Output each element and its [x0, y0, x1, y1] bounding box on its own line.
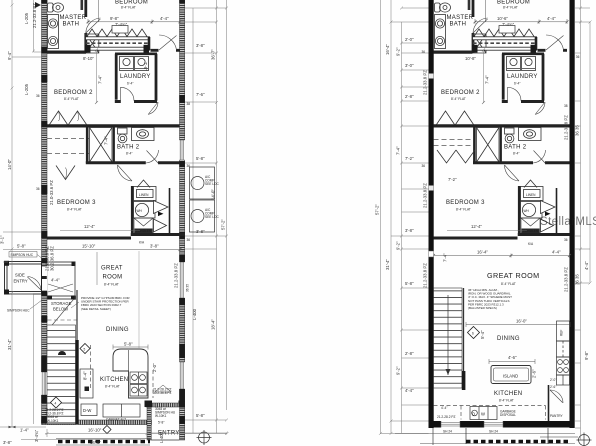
svg-text:16'-4": 16'-4": [385, 44, 390, 55]
svg-text:36: 36: [187, 238, 191, 242]
bedroom2 closet dashed shelves: [47, 139, 89, 154]
kitchen dim 5'-8": [113, 345, 148, 350]
shear diamond 3: [103, 426, 111, 434]
island R: [491, 366, 531, 384]
svg-text:BEDROOM 3: BEDROOM 3: [57, 200, 96, 206]
rotated dim texts left side: [0, 3, 54, 350]
svg-text:16'-0": 16'-0": [516, 319, 527, 324]
porch line R: [395, 434, 575, 444]
svg-text:SEE LOC: SEE LOC: [205, 215, 220, 219]
master bath right wall R: [472, 0, 475, 53]
water heater R: [521, 202, 543, 219]
svg-text:SIMPSON HUC: SIMPSON HUC: [7, 309, 30, 313]
svg-text:12'-4": 12'-4": [471, 224, 482, 229]
svg-text:8'-4" FLAT: 8'-4" FLAT: [456, 208, 471, 212]
linen niche door peak: [137, 180, 150, 188]
svg-text:5'-8": 5'-8": [196, 413, 205, 418]
svg-text:StellarMLS: StellarMLS: [540, 216, 596, 228]
svg-text:12'-4": 12'-4": [84, 224, 95, 229]
porch steps lines: [56, 439, 150, 446]
bedroom2 closet dashed shelves R: [434, 140, 476, 146]
svg-text:8'-4" FLAT: 8'-4" FLAT: [104, 283, 119, 287]
bottom cabinets: [103, 404, 140, 417]
svg-text:HANDLER: HANDLER: [523, 229, 539, 233]
svg-text:8'-4" FLAT: 8'-4" FLAT: [451, 97, 466, 101]
bedroom2 closet bifold doors: [50, 111, 87, 125]
svg-text:3'-8": 3'-8": [405, 228, 414, 233]
svg-text:W-10K1: W-10K1: [47, 419, 59, 423]
survey circle: [197, 430, 212, 445]
svg-text:SIDE: SIDE: [15, 273, 25, 278]
svg-text:3'-0": 3'-0": [405, 63, 414, 68]
laundry bottom wall R: [502, 100, 544, 103]
stair down arrow R: [447, 295, 449, 375]
svg-text:21.2-33.8 PZ: 21.2-33.8 PZ: [564, 267, 569, 292]
svg-text:4'-4": 4'-4": [51, 278, 60, 283]
svg-text:L-205: L-205: [24, 83, 29, 95]
dim ticks right plan right: [575, 8, 590, 428]
shear diamond R stairs: [468, 327, 480, 339]
dim line 15'-10": [46, 247, 182, 252]
svg-text:36'-7": 36'-7": [211, 49, 216, 60]
svg-text:7'-6": 7'-6": [196, 92, 205, 97]
washer dryer: [120, 57, 149, 71]
master bath bottom wall R: [434, 50, 473, 53]
svg-text:31'-4": 31'-4": [385, 259, 390, 270]
svg-text:2'-6": 2'-6": [532, 369, 537, 378]
window gap left wall kitchen: [41, 372, 47, 395]
svg-text:D: D: [472, 412, 475, 417]
dim vline left second: [33, 0, 35, 424]
deck bulkhead notch R: [499, 26, 515, 34]
wall right exterior (solid): [570, 0, 575, 428]
bath2 closet X R: [477, 128, 500, 163]
side entry top wall inside: [47, 262, 75, 265]
linen cabinet R: [521, 187, 544, 201]
cabinet R: [557, 341, 570, 357]
bath2 vanity R: [519, 128, 542, 141]
pantry door arc R: [550, 390, 563, 403]
svg-text:57'-2": 57'-2": [375, 204, 380, 215]
svg-text:30.2-36.8 PZ: 30.2-36.8 PZ: [50, 246, 55, 271]
wh closet doors: [154, 201, 169, 233]
wall right of wh R: [518, 186, 521, 236]
svg-text:16'-10": 16'-10": [88, 428, 102, 433]
door gap left wall side entry: [41, 266, 47, 291]
dim line bedroom top R: [474, 0, 569, 24]
svg-text:BATH 2: BATH 2: [117, 145, 140, 151]
svg-text:5'-8": 5'-8": [405, 281, 414, 286]
dim vline far left: [11, 0, 13, 427]
svg-text:31'-4": 31'-4": [7, 339, 12, 350]
kitchen sink boxes: [130, 372, 147, 396]
bedroom3 door arc R: [504, 165, 519, 181]
svg-text:HANDLER: HANDLER: [136, 229, 152, 233]
svg-text:8'-4" FLAT: 8'-4" FLAT: [67, 208, 82, 212]
svg-text:10'-6": 10'-6": [497, 16, 508, 21]
wall below wh closet: [131, 233, 185, 236]
svg-text:21.2-33.8 PZ: 21.2-33.8 PZ: [564, 115, 569, 140]
porch rail dashes R: [466, 440, 570, 443]
svg-text:5'-4": 5'-4": [480, 330, 485, 339]
svg-text:36: 36: [422, 164, 426, 168]
wall below wh closet R: [518, 233, 570, 236]
svg-text:STORAGE: STORAGE: [51, 301, 72, 306]
svg-text:21.2-33.8 PZ: 21.2-33.8 PZ: [423, 70, 428, 95]
bath2 closet with X: [90, 128, 113, 163]
svg-text:36 35: 36 35: [186, 284, 190, 292]
bath2 toilet: [118, 128, 128, 143]
porch left edge R: [432, 428, 434, 445]
hall wall stub + deck door: [151, 49, 181, 52]
bath2 door arc: [146, 150, 159, 164]
svg-text:36: 36: [576, 55, 580, 59]
svg-text:7'-6": 7'-6": [143, 62, 148, 71]
master bath right wall: [84, 0, 87, 53]
svg-text:2'-6": 2'-6": [550, 385, 556, 389]
svg-text:8'-4" FLAT: 8'-4" FLAT: [64, 97, 79, 101]
closet corridor wall R: [556, 188, 558, 236]
closet corridor wall: [169, 188, 171, 236]
svg-text:4: 4: [55, 401, 57, 405]
svg-text:10'-8": 10'-8": [465, 56, 476, 61]
bottom-left small dims: [21, 429, 229, 440]
entry porch floor line: [151, 439, 179, 441]
simpson huc label top: [9, 252, 37, 258]
wh closet doors R: [541, 201, 556, 233]
bottom counters dashed R: [434, 406, 546, 420]
deck rail zigzag R: [474, 29, 534, 37]
bath2 vanity: [132, 128, 155, 141]
svg-text:9'-8": 9'-8": [584, 351, 589, 360]
entry recess top wall (hatched): [146, 403, 185, 407]
hall door arc R: [535, 102, 545, 115]
hall door arc: [148, 102, 158, 115]
svg-text:5'-8": 5'-8": [124, 342, 133, 347]
water heater: [134, 202, 156, 219]
side entry bumpout: [5, 262, 42, 295]
deck right wall R: [535, 37, 538, 50]
entry porch R: [466, 428, 548, 444]
svg-text:7'-4": 7'-4": [104, 136, 109, 145]
svg-text:14'-8": 14'-8": [90, 440, 101, 445]
deck top wall R: [473, 37, 537, 40]
svg-text:8'-4" FLAT: 8'-4" FLAT: [503, 6, 518, 10]
svg-text:38: 38: [564, 104, 568, 108]
window gap right wall dining: [179, 362, 185, 389]
rotated dim texts middle gap: [375, 44, 401, 375]
svg-text:8'-4": 8'-4": [513, 152, 519, 156]
master bath toilet R: [435, 3, 451, 12]
svg-text:BEDROOM 2: BEDROOM 2: [54, 90, 93, 96]
kitchen dashed cabinets: [91, 345, 154, 398]
svg-text:GREAT ROOM: GREAT ROOM: [487, 271, 539, 280]
tiny pz labels entry left: [155, 385, 171, 392]
pantry wall R: [548, 385, 550, 421]
svg-text:WH: WH: [524, 209, 530, 213]
laundry right wall R: [542, 54, 545, 101]
dim ticks left: [11, 4, 36, 295]
deck door arc R: [546, 35, 564, 50]
deck bottom wall: [86, 47, 150, 50]
svg-text:W-10K1: W-10K1: [155, 414, 167, 418]
deck right wall: [148, 37, 151, 50]
svg-text:(BALUSTER SPECS): (BALUSTER SPECS): [468, 306, 497, 310]
svg-text:ROOM: ROOM: [103, 275, 123, 281]
svg-text:L-205: L-205: [24, 12, 29, 24]
master bath toilet: [48, 3, 64, 12]
svg-text:8'-4" FLAT: 8'-4" FLAT: [121, 6, 136, 10]
dim ticks right of left plan: [150, 8, 227, 433]
svg-text:D-W: D-W: [83, 408, 91, 413]
svg-text:1'-4": 1'-4": [20, 428, 29, 433]
centerline great room to kitchen: [138, 251, 140, 348]
svg-text:2'-0": 2'-0": [550, 378, 556, 382]
side entry door arc: [28, 277, 42, 291]
svg-text:4'-4": 4'-4": [552, 250, 561, 255]
dishwasher: [81, 404, 97, 416]
counter below stove R: [557, 375, 570, 385]
svg-text:8'-4": 8'-4": [83, 371, 88, 380]
window gap right wall great room: [179, 262, 185, 298]
bedroom3 closet bifold: [56, 166, 75, 180]
deck bottom wall R: [473, 47, 537, 50]
svg-text:36: 36: [36, 94, 40, 98]
svg-text:ISLAND: ISLAND: [503, 374, 518, 379]
svg-text:BATH 2: BATH 2: [504, 145, 527, 151]
L-205 labels top-left: [24, 12, 197, 443]
svg-text:8'-10": 8'-10": [83, 56, 94, 61]
svg-text:5'-8": 5'-8": [17, 244, 26, 249]
bedroom2 closet bifold R: [437, 111, 474, 125]
svg-text:6'-4": 6'-4": [127, 82, 133, 86]
svg-text:7'-2": 7'-2": [448, 177, 457, 182]
svg-text:15'-10": 15'-10": [82, 244, 96, 249]
svg-text:BATH: BATH: [63, 22, 80, 28]
dim hline left small: [3, 232, 41, 262]
master bath door arc: [86, 18, 101, 33]
window gaps bottom wall R: [441, 421, 460, 428]
linen cabinet: [134, 187, 157, 201]
wall left exterior (hatched): [42, 0, 48, 424]
stairs R: [434, 288, 463, 388]
misc top-left arrow: [35, 2, 41, 8]
dim line great room R: [432, 253, 571, 258]
svg-text:3'-8": 3'-8": [196, 229, 205, 234]
svg-text:3'-4¾": 3'-4¾": [34, 429, 39, 442]
svg-text:L-400: L-400: [159, 431, 164, 443]
svg-text:9'-4": 9'-4": [7, 51, 12, 60]
svg-text:21.0-33.6 PZ: 21.0-33.6 PZ: [49, 180, 54, 205]
survey circle R: [540, 433, 592, 446]
hall wall above bath2 R: [434, 124, 570, 127]
ac comp units between plans: [190, 167, 215, 232]
svg-text:36: 36: [422, 50, 426, 54]
dim ticks from right plan left wall: [381, 8, 429, 434]
svg-text:3'-8": 3'-8": [3, 440, 12, 445]
pz labels on right plan walls: [423, 70, 590, 360]
svg-text:14'-0": 14'-0": [7, 159, 12, 170]
svg-text:7'-4": 7'-4": [98, 75, 103, 84]
storage below structure: [48, 284, 78, 330]
dim vlines middle gap: [381, 0, 402, 434]
svg-text:4'-4": 4'-4": [160, 16, 169, 21]
svg-text:DINING: DINING: [106, 327, 129, 333]
svg-text:REF: REF: [560, 330, 564, 336]
svg-text:2'-0": 2'-0": [405, 37, 414, 42]
svg-text:(SEE DETAIL SHEET): (SEE DETAIL SHEET): [81, 307, 111, 311]
svg-text:L-400: L-400: [192, 308, 197, 320]
svg-text:DINING: DINING: [497, 336, 520, 342]
svg-text:K/A: K/A: [139, 241, 145, 245]
svg-text:2'-8": 2'-8": [405, 351, 414, 356]
stove R: [557, 357, 570, 375]
svg-text:3'-8": 3'-8": [150, 244, 159, 249]
svg-text:36: 36: [564, 238, 568, 242]
window gap right wall bath2: [179, 140, 185, 160]
svg-text:3'-8": 3'-8": [196, 43, 205, 48]
rotated dim texts right of left plan: [211, 49, 226, 330]
stair right wall R: [463, 288, 465, 371]
svg-text:K/A: K/A: [528, 242, 534, 246]
svg-text:4'-4": 4'-4": [584, 261, 589, 270]
laundry left wall R: [502, 54, 505, 100]
svg-text:6: 6: [472, 331, 474, 335]
svg-text:8'-4" FLAT: 8'-4" FLAT: [105, 385, 120, 389]
svg-text:6'-4": 6'-4": [514, 82, 520, 86]
linen niche door peak R: [524, 180, 537, 188]
tiny wall tick markers: [36, 50, 580, 242]
svg-text:7'-4": 7'-4": [485, 75, 490, 84]
bedroom3 bottom wall: [47, 237, 131, 240]
master shower R: [473, 34, 486, 53]
svg-text:LAUNDRY: LAUNDRY: [120, 74, 151, 80]
svg-text:21.2-33.8 PZ: 21.2-33.8 PZ: [423, 183, 428, 208]
wall right of wh: [131, 186, 134, 236]
deck top wall: [86, 37, 150, 40]
svg-text:4'-6": 4'-6": [508, 355, 517, 360]
stair right wall: [76, 290, 78, 340]
svg-text:SIMPSON HUC: SIMPSON HUC: [11, 253, 34, 257]
left wall notch great room R: [429, 251, 434, 257]
svg-text:16'-4": 16'-4": [477, 250, 488, 255]
svg-text:CABINET FLT: CABINET FLT: [106, 418, 126, 422]
wall left exterior (solid): [429, 0, 434, 428]
bath2 left wall: [86, 127, 89, 163]
svg-text:36 35: 36 35: [575, 274, 580, 285]
refrigerator R: [557, 321, 570, 341]
wall bottom exterior (hatched): [42, 420, 152, 425]
svg-text:BEDROOM: BEDROOM: [115, 0, 148, 5]
svg-text:36 35: 36 35: [575, 125, 580, 136]
deck dashed line: [86, 42, 148, 44]
svg-text:7'-2": 7'-2": [405, 156, 414, 161]
svg-text:WH: WH: [137, 209, 143, 213]
svg-text:8'-4" FLAT: 8'-4" FLAT: [499, 399, 514, 403]
svg-text:5'-8": 5'-8": [196, 156, 205, 161]
svg-text:BEDROOM: BEDROOM: [497, 0, 530, 5]
svg-text:BATH: BATH: [450, 22, 467, 28]
storage top wall: [48, 296, 76, 299]
svg-text:BELOW: BELOW: [53, 307, 68, 312]
tick dim texts left column: [196, 43, 205, 418]
svg-text:38: 38: [187, 102, 191, 106]
laundry door arc R: [508, 87, 522, 101]
bath2 toilet R: [505, 128, 515, 143]
svg-text:BEDROOM 2: BEDROOM 2: [441, 90, 480, 96]
svg-text:9'-2": 9'-2": [396, 47, 401, 56]
svg-text:2'-8": 2'-8": [405, 94, 414, 99]
svg-text:36: 36: [36, 187, 40, 191]
svg-text:18'-4": 18'-4": [211, 319, 216, 330]
stair up arrow: [58, 351, 66, 355]
svg-text:21.2-33.8 PZ: 21.2-33.8 PZ: [174, 263, 179, 288]
kitchen left appliance box: [80, 369, 93, 398]
stairs: [47, 325, 76, 424]
bath2 door arc R: [533, 150, 546, 164]
svg-text:SH 24: SH 24: [443, 430, 452, 434]
svg-text:GREAT: GREAT: [101, 266, 123, 272]
svg-text:PANTRY: PANTRY: [550, 414, 564, 418]
deck dashed line R: [473, 42, 535, 44]
wall right exterior (hatched): [180, 0, 185, 440]
svg-text:57'-2": 57'-2": [221, 219, 226, 230]
shear diamond 2: [51, 397, 62, 408]
tick dim texts right column: [405, 37, 414, 393]
pz notches left wall R: [429, 74, 434, 79]
svg-text:LAUNDRY: LAUNDRY: [507, 74, 538, 80]
svg-text:SH 24: SH 24: [489, 430, 498, 434]
master bath bottom wall: [47, 50, 86, 53]
svg-text:3'-1": 3'-1": [0, 235, 5, 244]
ac handler envelope: [134, 218, 153, 233]
laundry left wall: [115, 54, 118, 100]
dim vlines right of right plan: [581, 0, 591, 440]
dim line bedroom top: [87, 0, 182, 24]
bath2 bottom wall: [86, 161, 180, 164]
master bath door arc R: [473, 18, 488, 33]
dishwasher R: [470, 407, 497, 420]
deck rail zigzag: [87, 29, 147, 37]
svg-text:9'-8": 9'-8": [110, 16, 119, 21]
svg-text:4'-4": 4'-4": [441, 406, 447, 410]
svg-text:4'-4": 4'-4": [547, 16, 556, 21]
dim 16'-0": [466, 322, 570, 327]
svg-text:21.2-33.8 PZ: 21.2-33.8 PZ: [423, 263, 428, 288]
svg-text:21.2-28.2 PZ: 21.2-28.2 PZ: [437, 415, 455, 419]
svg-text:30.2-36.8 PZ: 30.2-36.8 PZ: [153, 391, 171, 395]
svg-text:36: 36: [187, 164, 191, 168]
bedroom3 closet bifold R: [437, 150, 475, 163]
shear diamond 1: [80, 344, 90, 354]
svg-text:7'-4": 7'-4": [443, 253, 448, 262]
laundry top wall R: [502, 52, 544, 55]
deck door arc: [159, 35, 177, 50]
svg-text:KITCHEN: KITCHEN: [494, 391, 522, 397]
svg-text:SEE LOC: SEE LOC: [205, 182, 220, 186]
deck bulkhead notch: [112, 26, 128, 34]
laundry top wall: [115, 52, 157, 55]
hall wall above bath2: [47, 124, 180, 127]
entry recess left wall (hatched): [147, 407, 151, 440]
master bath vanity: [48, 15, 59, 49]
svg-text:DISPOSAL: DISPOSAL: [500, 413, 516, 417]
hall wall stub + deck door R: [538, 49, 568, 52]
wall stud blocks right wall: [179, 0, 185, 424]
svg-text:MASTER: MASTER: [60, 15, 87, 21]
svg-text:8'-4" FLAT: 8'-4" FLAT: [501, 282, 516, 286]
wall stud blocks left wall: [41, 0, 47, 424]
